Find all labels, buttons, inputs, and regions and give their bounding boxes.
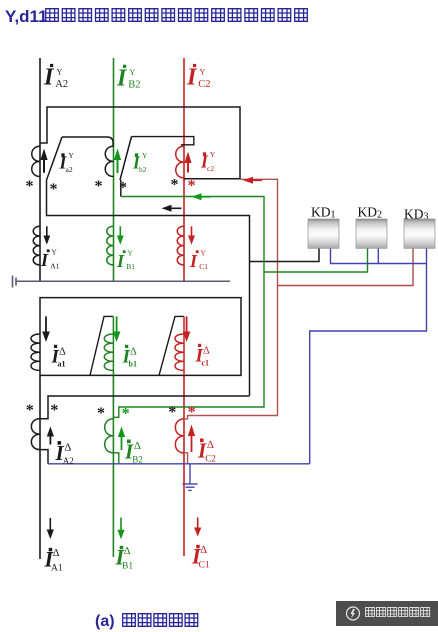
polarity asterisks bbox=[26, 177, 196, 423]
svg-text:Δ: Δ bbox=[203, 346, 210, 357]
svg-text:Δ: Δ bbox=[207, 439, 214, 451]
svg-text:I: I bbox=[43, 65, 55, 91]
svg-text:*: * bbox=[168, 404, 176, 421]
svg-text:C2: C2 bbox=[198, 79, 210, 90]
svg-text:Y: Y bbox=[130, 68, 136, 77]
relay KD2 bbox=[356, 205, 387, 249]
svg-text:I: I bbox=[40, 250, 49, 270]
transformer delta box bbox=[40, 298, 241, 376]
relay KD3 bbox=[404, 207, 435, 249]
wire phase A vertical upper (black) bbox=[39, 58, 41, 281]
svg-text:A1: A1 bbox=[51, 563, 63, 573]
title text bbox=[5, 7, 307, 26]
label IC2-D row4 bbox=[197, 439, 216, 464]
svg-text:I: I bbox=[116, 66, 128, 92]
svg-text:A2: A2 bbox=[55, 79, 68, 90]
winding row3 b1 coil (green) bbox=[104, 334, 113, 370]
svg-text:C1: C1 bbox=[199, 560, 210, 570]
CT row1 c2 coil (red) bbox=[176, 146, 184, 178]
wire node to KD3 feeder (dark red) bbox=[184, 179, 278, 419]
svg-text:Y: Y bbox=[127, 249, 133, 258]
svg-text:*: * bbox=[122, 406, 130, 423]
svg-text:A2: A2 bbox=[63, 456, 74, 466]
label Ia1-D bbox=[51, 345, 67, 369]
winding row2 C1 coil (red) bbox=[177, 226, 184, 265]
arrow row4 B2 up (green) bbox=[118, 427, 125, 451]
svg-text:b1: b1 bbox=[129, 360, 137, 369]
winding row3 a1 coil bbox=[31, 334, 40, 370]
label IA1-D bottom bbox=[44, 547, 63, 574]
winding slash b1-c1 bbox=[159, 316, 184, 375]
label IC1-Y bbox=[189, 249, 208, 272]
svg-text:Δ: Δ bbox=[134, 440, 141, 452]
svg-text:A1: A1 bbox=[50, 261, 59, 270]
CT row1 b2 slash bbox=[120, 137, 132, 181]
svg-text:*: * bbox=[95, 178, 103, 195]
wire a2 slash-bottom down and right (black) bbox=[47, 180, 250, 396]
wire row4-A top link (black) bbox=[40, 396, 250, 419]
label IB2-D row4 bbox=[124, 440, 143, 465]
svg-text:*: * bbox=[171, 177, 179, 194]
svg-text:Δ: Δ bbox=[130, 347, 137, 358]
arrow row1 a2 up (black) bbox=[40, 149, 47, 173]
c1 winding stem (red) bbox=[183, 316, 185, 375]
label IA1-Y bbox=[40, 248, 60, 271]
CT row1 a2 coil bbox=[32, 146, 40, 176]
svg-text:B1: B1 bbox=[126, 262, 135, 271]
arrow green feeder left bbox=[192, 193, 212, 200]
svg-text:KD2: KD2 bbox=[358, 205, 383, 221]
svg-text:I: I bbox=[186, 65, 198, 91]
arrow row1 b2 up (green) bbox=[114, 149, 121, 174]
svg-text:I: I bbox=[116, 251, 125, 271]
current labels bbox=[40, 64, 216, 573]
wire C-CT bottom to node (black) bbox=[184, 178, 241, 180]
label IB1-D bottom bbox=[115, 545, 134, 572]
label Ia2-Y bbox=[59, 151, 75, 174]
arrow row4 C2 up (red) bbox=[188, 425, 195, 453]
wire green branch to KD2 left bbox=[264, 249, 368, 273]
svg-text:*: * bbox=[26, 178, 34, 195]
svg-text:*: * bbox=[188, 178, 196, 195]
wire a2 slash-top to b2 coil-top bbox=[62, 137, 113, 146]
svg-text:Y: Y bbox=[200, 67, 206, 76]
CT row1 b2 coil bbox=[105, 146, 113, 176]
svg-text:Y: Y bbox=[200, 249, 206, 258]
svg-text:Δ: Δ bbox=[53, 548, 60, 559]
svg-text:B2: B2 bbox=[132, 454, 143, 464]
svg-text:Y: Y bbox=[51, 248, 57, 257]
CT row4 C2 coil (red) bbox=[175, 419, 184, 453]
CT row4 A2 coil bbox=[31, 419, 40, 450]
svg-text:Δ: Δ bbox=[64, 442, 71, 454]
arrow row3 b1 down (green) bbox=[113, 316, 121, 342]
wire phase C vertical upper (red) bbox=[183, 58, 185, 281]
wire phase A vertical lower (black) bbox=[39, 375, 41, 559]
arrow row3 a1 down (black) bbox=[42, 316, 50, 342]
wire phase B vertical upper (green) bbox=[113, 58, 115, 281]
b1 winding stem (green) bbox=[112, 316, 114, 375]
svg-text:c2: c2 bbox=[207, 164, 214, 173]
CT row1 a2 slash bbox=[47, 137, 63, 180]
arrow red feeder left bbox=[243, 177, 262, 184]
wire a2 secondary top link: box top y=107 to right edge x=240 bbox=[40, 107, 240, 179]
node Y neutral bus row2 (slate) bbox=[16, 280, 230, 282]
svg-text:*: * bbox=[188, 404, 196, 421]
arrow row4 A2 up (black) bbox=[47, 427, 54, 445]
wire black branch to KD1 left bbox=[250, 249, 320, 262]
wire row4-C bottom step (red) bbox=[184, 453, 188, 464]
arrows bbox=[40, 149, 262, 540]
caption (a) schematic bbox=[95, 613, 198, 630]
label Ib2-Y bbox=[132, 151, 148, 174]
svg-text:*: * bbox=[26, 402, 34, 419]
label IC2-Y top bbox=[186, 64, 211, 91]
svg-text:Y: Y bbox=[210, 150, 216, 159]
svg-text:KD1: KD1 bbox=[311, 205, 336, 221]
svg-text:*: * bbox=[50, 402, 58, 419]
wire blue neutral bus bbox=[48, 463, 310, 465]
wire row4-B bottom step (green) bbox=[113, 453, 119, 464]
svg-text:Y: Y bbox=[142, 151, 148, 160]
arrow row2 C1 down (red) bbox=[188, 226, 195, 245]
winding row2 A1 coil bbox=[33, 226, 40, 265]
svg-text:I: I bbox=[189, 251, 198, 271]
wire b2 slash-bottom down (black) bbox=[120, 180, 122, 197]
svg-text:*: * bbox=[50, 181, 58, 198]
arrow bottom A1 down (black) bbox=[47, 518, 54, 539]
svg-text:C1: C1 bbox=[199, 262, 208, 271]
wire blue return riser bbox=[310, 249, 427, 464]
arrow row2 B1 down (green) bbox=[117, 226, 124, 245]
ground at CT star point (blue) bbox=[183, 464, 198, 491]
label Ic1-D bbox=[195, 344, 211, 368]
relay KD1 bbox=[308, 205, 339, 249]
label IA2-D row4 bbox=[55, 441, 74, 466]
arrow bottom B1 down (green) bbox=[117, 518, 124, 540]
svg-text:Y: Y bbox=[68, 151, 74, 160]
svg-text:a2: a2 bbox=[66, 165, 73, 174]
arrow black feeder left bbox=[162, 205, 182, 212]
CT row4 B2 coil (green) bbox=[105, 419, 114, 453]
svg-text:*: * bbox=[97, 405, 105, 422]
winding slash a1-b1 bbox=[90, 316, 113, 375]
svg-text:Δ: Δ bbox=[200, 545, 207, 556]
arrow row2 A1 down (black) bbox=[43, 226, 50, 245]
svg-text:C2: C2 bbox=[205, 453, 216, 463]
svg-text:B2: B2 bbox=[128, 80, 140, 91]
arrow row1 c2 up (red) bbox=[184, 152, 191, 173]
svg-text:*: * bbox=[119, 180, 127, 197]
svg-text:c1: c1 bbox=[202, 359, 210, 368]
label IC1-D bottom bbox=[191, 544, 210, 571]
ground neutral left bbox=[13, 276, 17, 288]
svg-text:Y: Y bbox=[57, 67, 63, 76]
wire green feeder bbox=[113, 197, 264, 418]
watermark box bbox=[336, 601, 438, 626]
svg-text:b2: b2 bbox=[139, 165, 147, 174]
wire row4-A bottom step (black) bbox=[40, 450, 48, 464]
svg-text:a1: a1 bbox=[58, 360, 66, 369]
wire phase C vertical lower (red) bbox=[183, 375, 185, 556]
arrow bottom C1 down (red) bbox=[194, 518, 201, 537]
svg-text:Δ: Δ bbox=[59, 347, 66, 358]
wire phase B vertical lower (green) bbox=[112, 375, 114, 557]
svg-text:B1: B1 bbox=[122, 561, 133, 571]
wire blue KD right terminals bus bbox=[331, 249, 427, 264]
label Ic2-Y bbox=[200, 150, 216, 173]
winding row2 B1 coil (green) bbox=[107, 226, 114, 265]
arrow row3 c1 down (red) bbox=[183, 316, 191, 342]
svg-text:Y,d11: Y,d11 bbox=[5, 7, 48, 26]
label IB2-Y top bbox=[116, 65, 141, 92]
label IB1-Y bbox=[116, 249, 135, 272]
wire red branch to KD3 left bbox=[278, 249, 414, 286]
label Ib1-D bbox=[122, 345, 138, 369]
winding row3 c1 coil (red) bbox=[175, 334, 184, 370]
svg-text:(a): (a) bbox=[95, 613, 115, 630]
wire b2 slash-top to c2 coil-top bbox=[132, 137, 194, 145]
svg-text:Δ: Δ bbox=[124, 546, 131, 557]
label IA2-Y top bbox=[43, 64, 68, 91]
